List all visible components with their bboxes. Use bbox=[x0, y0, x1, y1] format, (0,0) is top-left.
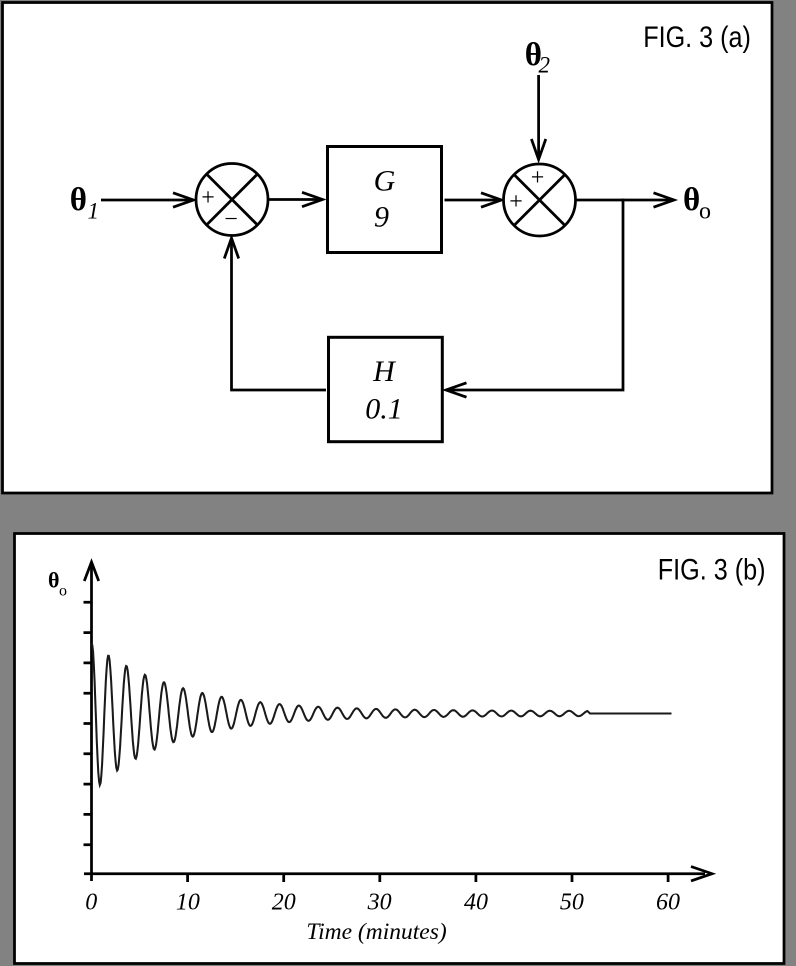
svg-text:9: 9 bbox=[374, 201, 389, 234]
svg-text:+: + bbox=[531, 165, 545, 191]
svg-text:FIG. 3 (a): FIG. 3 (a) bbox=[643, 20, 751, 54]
svg-text:θ: θ bbox=[48, 568, 59, 593]
svg-text:30: 30 bbox=[367, 890, 392, 916]
svg-text:1: 1 bbox=[88, 199, 100, 224]
svg-text:o: o bbox=[59, 583, 67, 600]
svg-text:Time (minutes): Time (minutes) bbox=[306, 919, 447, 945]
svg-text:0.1: 0.1 bbox=[365, 393, 403, 426]
svg-text:+: + bbox=[201, 185, 215, 211]
svg-text:10: 10 bbox=[176, 890, 200, 916]
svg-text:+: + bbox=[509, 189, 523, 215]
svg-text:20: 20 bbox=[272, 890, 296, 916]
svg-text:θ: θ bbox=[70, 182, 87, 218]
svg-text:50: 50 bbox=[560, 890, 584, 916]
svg-text:θ: θ bbox=[683, 182, 700, 218]
svg-text:FIG. 3 (b): FIG. 3 (b) bbox=[658, 553, 766, 587]
svg-text:60: 60 bbox=[656, 890, 680, 916]
svg-text:H: H bbox=[372, 355, 397, 388]
svg-text:2: 2 bbox=[539, 53, 551, 78]
svg-text:0: 0 bbox=[85, 890, 97, 916]
svg-text:o: o bbox=[699, 199, 711, 225]
svg-text:G: G bbox=[374, 165, 396, 198]
svg-text:40: 40 bbox=[464, 890, 488, 916]
svg-text:−: − bbox=[224, 206, 238, 232]
